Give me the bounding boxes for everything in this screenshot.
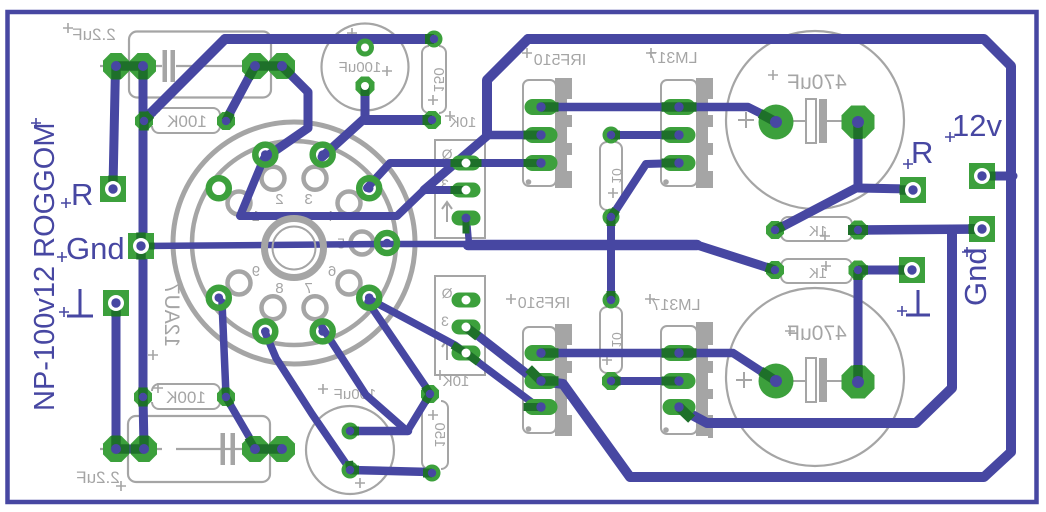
wire: tube pin4 to J1 pad1 and Q1 gate bbox=[367, 163, 541, 188]
wire: C6 right pads link bbox=[255, 445, 282, 454]
capacitor C2 100uF outline bbox=[322, 24, 409, 111]
wire: R10 right pad to C6 pad bbox=[227, 399, 255, 447]
resistor R5 1K outline bbox=[781, 217, 852, 241]
wire: C5 top pad to junction bbox=[350, 427, 408, 436]
wire: 12v pad stub bbox=[982, 172, 1013, 181]
svg-text:3: 3 bbox=[441, 313, 449, 329]
wire: pin5 to J2 pad3 bbox=[386, 220, 469, 244]
wire: tube pin3 to junction bbox=[322, 118, 365, 157]
tube socket V1 center hole rings bbox=[265, 219, 324, 278]
wire: C1 to tube pin2 bbox=[266, 66, 308, 157]
wire: tube pin8 to C5 bottom pad bbox=[265, 332, 349, 468]
pad R5-left bbox=[766, 221, 784, 239]
svg-text:12v: 12v bbox=[952, 108, 1002, 143]
wire: C6 pad link bbox=[116, 445, 144, 454]
svg-text:Gnd: Gnd bbox=[958, 247, 993, 306]
pad R10-right bbox=[217, 388, 235, 406]
pad R4-bottom bbox=[603, 209, 620, 226]
svg-text:2: 2 bbox=[275, 191, 283, 208]
pad R1-right bbox=[217, 112, 235, 130]
pad C3-plus bbox=[759, 105, 794, 140]
wire: C5 bottom pad to 150 R8 pad bbox=[350, 470, 430, 472]
pad J1-1 bbox=[452, 156, 481, 171]
pad J2-3 bbox=[452, 346, 481, 361]
pad R6-left bbox=[766, 261, 784, 279]
pad C1-a bbox=[103, 53, 129, 79]
resistor R6 1K outline bbox=[781, 259, 852, 283]
pad C6-d bbox=[269, 436, 295, 462]
svg-text:9: 9 bbox=[252, 263, 260, 280]
svg-text:NP-100v12 ROGGOM: NP-100v12 ROGGOM bbox=[29, 123, 61, 411]
wire: ground jack pad down to C6 left pad bbox=[112, 303, 121, 447]
pad C6-a bbox=[103, 436, 129, 462]
pad C2-minus bbox=[356, 77, 375, 96]
pad R9-10K bbox=[421, 385, 439, 403]
svg-text:7: 7 bbox=[304, 280, 312, 297]
wire: tube pin6 to J2 pad3 to Q2 pad3 bbox=[369, 299, 542, 407]
svg-text:470uF: 470uF bbox=[787, 71, 847, 94]
svg-text:10: 10 bbox=[609, 168, 625, 184]
svg-text:R: R bbox=[911, 135, 933, 170]
capacitor C4 470uF outline bbox=[726, 288, 904, 466]
pad C3-minus bbox=[842, 106, 875, 139]
pad C5-plus bbox=[342, 423, 359, 440]
earth symbol left bbox=[67, 289, 93, 316]
wire: C1 right pads link bbox=[255, 62, 282, 71]
wire: 2.2uF C1 pad link bbox=[116, 62, 143, 71]
pad R7-top bbox=[603, 292, 620, 309]
wire: R7 pad to U2 middle pad bbox=[611, 377, 679, 385]
svg-text:12AU7: 12AU7 bbox=[160, 283, 183, 347]
pad earth-right jack bbox=[899, 257, 925, 283]
pad R-right jack bbox=[900, 177, 926, 203]
pad earth-left jack bbox=[103, 290, 129, 316]
connector J2 outline bbox=[435, 276, 485, 375]
resistor R1 100K outline bbox=[152, 108, 220, 133]
wire: J2 pad2 to Q2 middle pad bbox=[467, 327, 542, 381]
tube socket V1 pin rings (silkscreen) bbox=[228, 272, 251, 295]
svg-text:3: 3 bbox=[304, 191, 312, 208]
svg-text:2.2uF: 2.2uF bbox=[72, 25, 115, 44]
wire: C3 right pad down bbox=[854, 122, 863, 187]
wire: top rail to 150 R2 pad bbox=[225, 34, 434, 44]
svg-text:8: 8 bbox=[275, 280, 283, 297]
wire: R4 lower pad to R7 upper pad vertical bbox=[607, 217, 615, 300]
wire: ground spine to 1K R6 left pad bbox=[697, 245, 775, 270]
pad J2-2 bbox=[452, 320, 481, 335]
wire: 1K R5 right pad to Gnd pad bbox=[858, 229, 982, 230]
resistor R7 10 outline bbox=[600, 307, 622, 373]
svg-text:1K: 1K bbox=[809, 265, 827, 282]
capacitor C5 100uF outline bbox=[306, 406, 394, 494]
svg-text:100uF: 100uF bbox=[339, 59, 382, 76]
pad R6-right bbox=[849, 261, 868, 280]
pad C2-plus bbox=[356, 39, 374, 57]
regulator U1 LM317 outline bbox=[661, 80, 697, 186]
pad C4-minus bbox=[842, 366, 875, 399]
resistor R10 100K outline bbox=[152, 384, 220, 409]
wire: 12v rail chamfer down left bbox=[487, 39, 528, 134]
wire: junction to 150 R2 bottom pad bbox=[365, 115, 431, 125]
capacitor C1 2.2uF outline bbox=[129, 32, 271, 98]
svg-text:150: 150 bbox=[430, 67, 447, 92]
pad J2-1 bbox=[452, 293, 481, 308]
svg-text:470uF: 470uF bbox=[787, 322, 847, 345]
svg-text:150: 150 bbox=[431, 422, 448, 447]
resistor R4 10 outline bbox=[600, 142, 622, 210]
wire: C1 to R1 right pad bbox=[226, 66, 255, 120]
wire: tube pin6 to 10K pad bbox=[368, 302, 430, 393]
pad R-left jack bbox=[100, 176, 126, 202]
svg-text:IRF510: IRF510 bbox=[534, 52, 587, 69]
pad R7-bottom bbox=[602, 372, 620, 390]
pads U2 bbox=[663, 345, 696, 361]
svg-text:R: R bbox=[71, 177, 93, 212]
resistor R2 150 outline bbox=[422, 46, 446, 113]
wire: to 1K R5 left pad bbox=[776, 187, 858, 230]
svg-text:IRF510: IRF510 bbox=[518, 295, 571, 312]
wire: 10K pad to C5 junction bbox=[408, 394, 430, 430]
wire: Gnd pad through tube pin5 bbox=[141, 244, 386, 246]
pad C1-b bbox=[130, 53, 156, 79]
pads Q1 bbox=[525, 99, 558, 115]
wire: R6 right pad down to C4 pad bbox=[854, 270, 863, 381]
pad 12v jack bbox=[969, 163, 995, 189]
pad R8-bottom bbox=[424, 465, 441, 482]
pad R10-left bbox=[134, 388, 152, 406]
pad R2-bottom bbox=[423, 111, 441, 129]
wire: Q1/U1 top row to C3 left pad bbox=[541, 107, 776, 121]
capacitor C3 470uF outline bbox=[726, 31, 904, 209]
resistor R8 150 outline bbox=[422, 401, 448, 469]
wire: to R output pad bbox=[858, 188, 913, 189]
wire: C1 right pad down to Gnd pad, 100K R1/R10, C6 pad bbox=[143, 66, 144, 447]
svg-text:2.2uF: 2.2uF bbox=[76, 468, 119, 487]
pad J1-3 bbox=[452, 211, 481, 226]
svg-text:6: 6 bbox=[328, 263, 336, 280]
svg-text:100K: 100K bbox=[165, 388, 205, 407]
pad C4-plus bbox=[759, 364, 794, 399]
pad Gnd-right jack bbox=[969, 216, 995, 242]
wire: tube pin9 to R10 right pad bbox=[222, 302, 226, 395]
earth symbol right bbox=[906, 290, 930, 315]
pad C6-b bbox=[131, 436, 157, 462]
svg-text:10K: 10K bbox=[443, 373, 470, 390]
wire: tube pin7 to junction bbox=[322, 327, 407, 431]
svg-text:100K: 100K bbox=[166, 112, 206, 131]
tube socket V1 outer rings bbox=[173, 122, 415, 364]
pad R5-right bbox=[849, 221, 868, 240]
wire: feed into Q1 middle pad bbox=[487, 131, 541, 140]
wire: heater feed diagonal bbox=[424, 136, 487, 190]
pad C1-d bbox=[269, 53, 295, 79]
pad R1-left bbox=[135, 112, 153, 130]
wire: tube pin2 to volume connector J1 bbox=[240, 158, 453, 216]
svg-text:Gnd: Gnd bbox=[66, 231, 125, 266]
wire: C1 left pad down to R jack pad bbox=[113, 66, 116, 187]
pad C1-c bbox=[242, 53, 268, 79]
wire: R4 lower pad up to U1 pad3 bbox=[612, 163, 679, 216]
pad R4-top bbox=[603, 127, 620, 144]
pad Gnd-left jack bbox=[128, 233, 154, 259]
wire: center ground spine bbox=[468, 240, 697, 251]
pad C5-minus bbox=[342, 462, 359, 479]
pads Q2 bbox=[525, 345, 558, 361]
svg-text:10: 10 bbox=[609, 332, 625, 348]
capacitor C6 2.2uF outline bbox=[128, 416, 270, 482]
wire: R4 pad to U1 middle pad bbox=[611, 131, 679, 139]
pads U1 bbox=[663, 99, 696, 115]
pad C6-c bbox=[242, 436, 268, 462]
svg-text:LM317: LM317 bbox=[651, 297, 700, 314]
transistor Q2 IRF510 outline bbox=[523, 327, 556, 433]
connector J1 outline bbox=[435, 140, 485, 238]
tube socket V1 pads pins 1-9 bbox=[209, 288, 229, 308]
wire: inner ground loop bbox=[679, 230, 952, 423]
regulator U2 LM317 outline bbox=[661, 326, 697, 434]
pad J1-2 bbox=[452, 183, 481, 198]
wire: junction up to C2 pad bbox=[361, 86, 370, 120]
pad R2-top bbox=[426, 31, 443, 48]
wire: top rail diagonal to R1 left pad bbox=[144, 39, 225, 120]
svg-text:Ø: Ø bbox=[442, 285, 453, 301]
wire: Q2/U2 row to C4 left pad bbox=[542, 353, 776, 381]
wire: 1K R6 right pad to earth pad bbox=[858, 266, 912, 275]
transistor Q1 IRF510 outline bbox=[523, 80, 556, 186]
wire: 12v rail top and right loop bbox=[528, 39, 1011, 477]
